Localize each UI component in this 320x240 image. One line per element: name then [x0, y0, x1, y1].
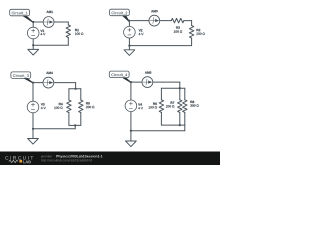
wire bottom return C2: [129, 45, 191, 47]
CircuitLab logo orange square: [19, 160, 22, 163]
wire R5 top lead: [80, 89, 82, 100]
wire R1 top lead: [67, 22, 69, 25]
wire R7 bottom lead: [179, 112, 181, 125]
ground C2: [124, 46, 135, 56]
wire R3 to corner: [184, 20, 192, 22]
junction node bottom C3: [32, 128, 34, 130]
ground C4: [126, 131, 137, 147]
ammeter AM1: [43, 17, 54, 28]
junction feed C4: [179, 87, 181, 89]
wire bottom return C4: [131, 130, 185, 132]
wire AM5 to corner: [153, 81, 180, 83]
label R7: [171, 102, 175, 104]
wire V4 top lead: [130, 82, 132, 100]
label AM5: [145, 71, 151, 73]
CircuitLab logo CIRCUIT: [5, 156, 33, 160]
resistor R4: [67, 100, 71, 113]
resistor R3: [171, 18, 184, 22]
wire node to AM4: [33, 82, 43, 84]
label R4: [59, 103, 63, 105]
wire V2 top lead: [128, 21, 130, 27]
ground C1: [28, 45, 39, 55]
wire V1 bottom lead: [32, 38, 34, 45]
wire V3 bottom lead: [32, 113, 34, 129]
label V1: [40, 30, 44, 32]
wire R2 top lead: [191, 21, 193, 26]
node label Circuit_4: [122, 77, 131, 82]
wire R4 top lead: [68, 89, 70, 100]
junction node top C4: [130, 81, 132, 83]
label V1 value 4 V: [40, 33, 45, 35]
label R3: [176, 26, 180, 28]
CircuitLab logo LAB: [23, 161, 31, 164]
resistor R7: [178, 100, 182, 113]
label R7 value 200 ohm: [166, 105, 174, 107]
label AM3: [151, 10, 157, 12]
label R6: [153, 103, 157, 105]
wire V3 top lead: [32, 83, 34, 102]
wire R8 top lead: [184, 88, 186, 100]
label R8 value 300 ohm: [190, 104, 198, 106]
label R5 value 200 ohm: [86, 106, 94, 108]
wire bottom bar C3: [69, 124, 81, 126]
label V2 value 4 V: [139, 33, 144, 35]
footer bar: [0, 152, 220, 166]
voltage source V3: [27, 101, 39, 113]
wire R5 bottom lead: [80, 113, 82, 126]
wire R4 bottom lead: [68, 113, 70, 126]
CircuitLab logo resistor zigzag: [9, 160, 18, 162]
voltage source V4: [125, 100, 137, 112]
junction node top C1: [32, 21, 34, 23]
label R1 value 100 ohm: [75, 33, 83, 35]
wire node to AM1: [33, 21, 43, 23]
label R8: [190, 101, 194, 103]
footer author: [41, 155, 54, 158]
resistor R1: [66, 25, 70, 38]
node label Circuit_2: [122, 15, 129, 20]
wire node to AM3: [129, 20, 149, 22]
label R5: [86, 102, 90, 104]
resistor R2: [189, 26, 193, 39]
junction feed C3: [75, 88, 77, 90]
footer title: [56, 155, 102, 158]
node label Circuit_3: [23, 78, 33, 83]
wire top bar C3: [69, 88, 81, 90]
ammeter AM5: [142, 77, 153, 88]
wire R7 top lead: [179, 88, 181, 100]
footer url: [41, 159, 92, 162]
wire bottom return C1: [33, 44, 68, 46]
wire R2 bottom lead: [191, 38, 193, 46]
wire V2 bottom lead: [128, 38, 130, 46]
wire AM3 to R3: [160, 20, 172, 22]
label V2: [139, 29, 143, 31]
resistor R8: [183, 100, 187, 113]
junction node bottom C4: [130, 130, 132, 132]
junction node bottom C2: [128, 45, 130, 47]
label R2: [197, 29, 201, 31]
wire bottom return C3: [33, 128, 75, 130]
wire AM4 to corner: [54, 82, 76, 84]
wire top bar C4: [161, 87, 184, 89]
wire stub from bottom bar: [74, 125, 76, 128]
label R6 value 100 ohm: [149, 106, 157, 108]
label V4 value 4 V: [138, 107, 143, 109]
voltage source V2: [124, 26, 136, 38]
junction bottom bar C4: [179, 124, 181, 126]
label R1: [75, 29, 79, 31]
wire R6 bottom lead: [160, 112, 162, 125]
junction node bottom C1: [32, 44, 34, 46]
wire feed down to top bar C3: [75, 83, 77, 89]
label R2 value 200 ohm: [196, 33, 204, 35]
resistor R6: [159, 100, 163, 113]
label AM4: [46, 72, 52, 74]
wire R1 bottom lead: [67, 38, 69, 46]
label R4 value 100 ohm: [54, 107, 62, 109]
label R3 value 100 ohm: [174, 30, 182, 32]
wire R8 bottom lead: [184, 112, 186, 125]
wire V1 top lead: [32, 22, 34, 27]
wire node to AM5: [131, 81, 142, 83]
ground C3: [28, 129, 39, 144]
wire AM1 to corner: [54, 21, 68, 23]
wire bottom bar C4: [161, 124, 184, 126]
voltage source V1: [27, 27, 39, 39]
junction node top C2: [128, 20, 130, 22]
ammeter AM3: [149, 15, 160, 26]
wire feed down to top bar C4: [179, 82, 181, 88]
wire R8 branch down to return: [184, 125, 186, 131]
label V3: [41, 103, 45, 105]
junction bottom bar C3: [74, 124, 76, 126]
label V3 value 4 V: [41, 107, 46, 109]
label V4: [138, 103, 142, 105]
junction node top C3: [32, 82, 34, 84]
node label Circuit_1: [22, 15, 33, 22]
ammeter AM4: [43, 77, 54, 88]
label AM1: [47, 11, 53, 13]
wire R6 top lead: [160, 88, 162, 100]
wire V4 bottom lead: [130, 111, 132, 130]
resistor R5: [79, 100, 83, 113]
